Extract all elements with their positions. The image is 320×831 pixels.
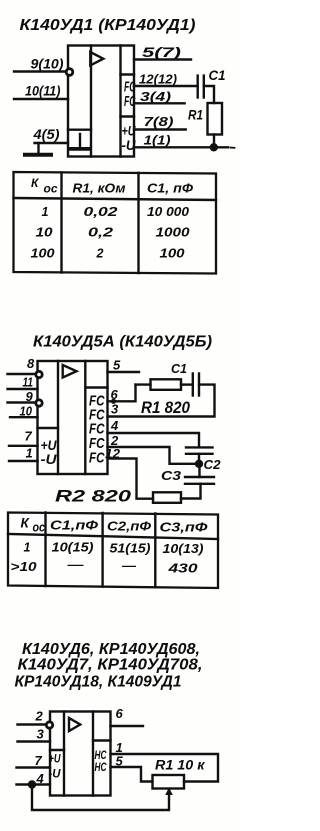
pin 4 label [110,418,119,433]
label C3 [161,468,182,483]
pin 11 label [23,375,34,390]
svg-text:С3,пФ: С3,пФ [160,521,208,535]
svg-text:2: 2 [96,247,104,261]
svg-text:5(7): 5(7) [142,44,182,60]
wire C3 to R2 [181,484,201,499]
pin 8 label [27,356,35,371]
pin 5(7) label [142,44,182,60]
title K140UD1 (KR140UD1) [20,17,196,34]
wire pin 11 [8,388,38,390]
pin 2 label [110,433,119,448]
pin 7 label [25,429,33,444]
svg-text:0,2: 0,2 [88,226,113,240]
svg-text:3: 3 [111,402,119,417]
pin 1(1) label [144,133,171,148]
svg-text:—: — [121,559,137,573]
op-amp U1 body [68,46,134,157]
pin 3 label [37,727,45,742]
pin 9 label [26,389,34,404]
op-amp U2 body [38,361,108,474]
wire pin 10 [10,416,38,418]
wire pin 6 [111,725,144,727]
svg-text:9(10): 9(10) [31,56,64,72]
resistor R1 (820) [151,379,182,390]
resistor R1 (10k) potentiometer [153,775,185,789]
wire R1 to rail [213,135,215,148]
U2 right cell divider [85,386,107,388]
FC labels [124,79,136,111]
svg-text:—: — [66,558,84,572]
svg-text:-U: -U [41,451,58,467]
svg-text:10(15): 10(15) [52,541,94,555]
svg-text:7: 7 [25,429,33,444]
svg-text:С1, пФ: С1, пФ [147,182,193,196]
wire pin 9(10) [14,70,68,72]
U2 +U/-U box [38,427,59,429]
label C1 [171,361,187,376]
svg-text:100: 100 [31,247,55,261]
pin 3 label [111,402,119,417]
svg-text:10 000: 10 000 [147,205,189,219]
svg-text:-U: -U [122,137,137,153]
svg-text:3: 3 [37,727,45,742]
node circle pin 2 [46,722,52,728]
wire to R1 [136,383,151,385]
svg-text:ос: ос [33,520,46,534]
op-amp U1 right column divider [119,46,121,157]
svg-text:К140УД6, КР140УД608,: К140УД6, КР140УД608, [22,641,200,658]
title K140UD5A (K140UD5B) [33,334,212,351]
wire rail dash artifact [231,147,235,149]
node circle pin 9 [36,400,42,406]
svg-text:>10: >10 [11,560,37,574]
table T1 frame [14,172,217,274]
capacitor C1 [181,383,192,385]
pin 12(12) label [139,72,177,87]
svg-text:7: 7 [35,753,43,768]
svg-text:12(12): 12(12) [139,72,177,87]
junction dot pin 4 [28,780,36,788]
svg-text:6: 6 [116,706,124,721]
cell divider output/FC [121,73,135,75]
svg-text:R1 820: R1 820 [141,399,191,417]
pin 5 label [116,754,124,769]
svg-text:C1: C1 [171,361,187,376]
op-amp U3 left divider [63,712,65,796]
pin 7(8) label [144,114,174,129]
pin 3(4) label [140,89,171,104]
ground symbol inside cell [79,134,81,147]
wire down to bottom rail and wiper [32,785,169,811]
wire dot to C3 [198,464,200,477]
svg-text:10(13): 10(13) [163,542,204,556]
wire pin 9 [8,401,38,403]
wire pin 4 [17,783,51,785]
svg-text:КР140УД18, К1409УД1: КР140УД18, К1409УД1 [15,674,182,691]
wire pin 3 [18,740,51,742]
wire C1 to R1 [204,86,214,103]
svg-text:1: 1 [24,541,31,555]
U2 FC labels [89,393,105,467]
title line 3 [15,674,182,691]
op-amp U2 left divider [57,361,59,474]
wire C1 down to pin3 rail [108,385,215,417]
wire pin 1 [9,460,38,462]
svg-text:C3: C3 [161,468,182,483]
wire pin 12 to R2 [108,459,154,499]
pin 6 label [111,387,119,402]
svg-text:1(1): 1(1) [144,133,171,148]
node circle at pin 9(10) [66,69,73,76]
svg-text:С2,пФ: С2,пФ [107,520,151,534]
svg-text:11: 11 [23,375,34,390]
ground [37,143,39,153]
pin 6 label [116,706,124,721]
wiper arrow head [165,788,173,796]
capacitor C3 [185,476,214,478]
ground cell box [68,128,91,130]
junction dot C2 [195,460,203,468]
svg-text:1000: 1000 [156,226,190,240]
op-amp U3 right divider [92,712,94,796]
wire pin 8 [8,373,38,375]
capacitor C2 [186,446,213,448]
resistor R1 [208,103,223,135]
capacitor C1 [196,76,198,98]
svg-text:430: 430 [167,562,197,576]
pin 9(10) label [31,56,64,72]
wire pin 1 [111,754,219,782]
svg-text:2: 2 [35,709,44,724]
svg-text:R1: R1 [188,107,203,123]
svg-text:С1,пФ: С1,пФ [50,519,98,533]
svg-text:51(15): 51(15) [110,542,151,556]
op-amp U2 triangle [63,365,77,378]
label R1 10 k [155,758,206,773]
pin 1 label [116,740,123,755]
op-amp U3 body [50,712,111,796]
wire pin 2 [18,723,51,725]
wire pin 7 [17,766,51,768]
svg-text:10(11): 10(11) [25,83,61,99]
pin 7 label [35,753,43,768]
svg-text:R1 10 к: R1 10 к [155,758,206,773]
pin 2 label [35,709,44,724]
wire pin 2 [108,447,196,464]
svg-text:ос: ос [44,181,58,195]
resistor R2 [153,492,181,503]
op-amp U1 triangle [90,52,103,65]
svg-text:100: 100 [160,247,185,261]
title line 1 [22,641,200,658]
node circle pin 8 [36,371,42,377]
wire pin 4 to C2 [108,433,200,446]
wire output 5(7) [134,58,191,60]
U3 +U/-U box [50,749,64,751]
svg-text:0,02: 0,02 [84,205,118,219]
svg-text:FC: FC [89,450,105,467]
op-amp U1 left column divider [90,46,92,157]
wire pin 7(8) [134,128,186,130]
pin 10 label [20,403,33,418]
U3 right cell divider [93,739,111,741]
pin 4(5) label [32,126,59,142]
label C2 [204,457,222,472]
svg-text:FC: FC [124,93,136,110]
wire pin 4(5) [35,142,69,144]
junction blob pin 6 [111,399,116,404]
svg-text:3(4): 3(4) [140,89,171,104]
pin 1 label [26,446,33,461]
wire pin 12(12) to C1 [134,85,198,87]
pin 4 label [36,771,45,786]
svg-text:К140УД1 (КР140УД1): К140УД1 (КР140УД1) [20,17,196,34]
svg-text:4: 4 [110,418,119,433]
pin 12 label [105,446,121,461]
op-amp U3 triangle [69,718,80,731]
+U -U labels [122,123,137,153]
pin 5 label [113,358,121,373]
U3 NC labels [95,748,107,774]
wire pin 5 [111,767,153,782]
pin 10(11) label [25,83,61,99]
wire pin 7 [9,445,38,447]
wire pin 6 [108,385,136,402]
svg-text:К140УД7, КР140УД708,: К140УД7, КР140УД708, [18,657,203,674]
junction dot R1/rail [210,143,218,151]
svg-text:НС: НС [95,760,107,774]
svg-text:8: 8 [27,356,35,371]
op-amp U2 right divider [84,361,86,474]
label R2 820 [55,488,132,506]
wire pin 10(11) [14,98,68,100]
title line 2 [18,657,203,674]
svg-text:10: 10 [36,226,53,240]
svg-text:5: 5 [113,358,121,373]
svg-text:R1, кОм: R1, кОм [73,182,126,196]
cell divider FC/+U [121,115,135,117]
svg-text:R2 820: R2 820 [55,488,132,506]
svg-text:1: 1 [26,446,33,461]
svg-text:7(8): 7(8) [144,114,174,129]
table T2 frame [8,513,218,589]
wire pin 1(1) rail [134,146,228,148]
svg-text:C1: C1 [209,67,226,83]
wire pin 5 [108,371,140,373]
svg-text:+U: +U [49,752,61,766]
svg-text:4(5): 4(5) [32,126,59,142]
svg-text:C2: C2 [204,457,222,472]
svg-text:12: 12 [105,446,121,461]
svg-text:К140УД5А (К140УД5Б): К140УД5А (К140УД5Б) [33,334,212,351]
label R1 820 [141,399,191,417]
wire pin 3(4) [134,102,185,104]
svg-text:1: 1 [42,205,49,219]
